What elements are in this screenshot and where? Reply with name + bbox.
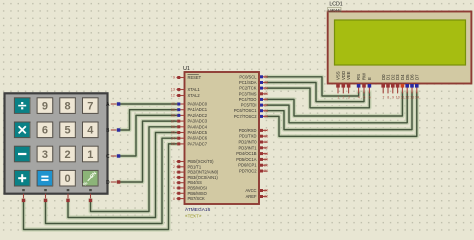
U1 pin label PC5/TDI: [241, 103, 257, 108]
pin U1 pin 4 PB3/(OC0/AIN1): [177, 176, 185, 178]
wire row A to PA0: [119, 102, 177, 106]
svg-text:9: 9: [42, 100, 48, 112]
pin U1 pin 40 PA0/ADC0: [177, 103, 185, 105]
svg-text:12: 12: [171, 94, 175, 98]
wire PC2 to LCD E: [267, 88, 369, 108]
keypad button mul: [14, 122, 30, 138]
wire row B to PA1: [119, 110, 177, 130]
junction U1 pin 4 terminal: [177, 176, 180, 179]
svg-text:40: 40: [171, 102, 175, 106]
U1 pin number 32: [264, 195, 268, 199]
junction U1 pin 8 terminal: [177, 197, 180, 200]
svg-text:11: 11: [401, 96, 405, 100]
svg-text:15: 15: [264, 134, 268, 138]
pin U1 pin 13 XTAL1: [177, 89, 185, 91]
LCD pin number 7: [382, 96, 384, 100]
junction LCD pin 14 terminal: [415, 84, 419, 88]
U1 pin number 3: [173, 170, 175, 174]
U1 pin number 38: [171, 114, 175, 118]
U1 pin number 34: [171, 136, 175, 140]
U1 pin label PB3/(OC0/AIN1): [188, 175, 219, 180]
svg-text:28: 28: [264, 109, 268, 113]
keypad button 8: [60, 98, 76, 114]
LCD pin number 6: [369, 96, 371, 100]
junction U1 pin 38 terminal: [177, 114, 180, 117]
pin U1 pin 16 PD2/INT0: [259, 141, 267, 143]
junction U1 pin 39 terminal: [177, 108, 180, 111]
keypad button plus: [14, 170, 30, 186]
LCD pin label E: [367, 77, 372, 80]
svg-text:D7: D7: [414, 74, 419, 80]
wire col 4 to PA4: [91, 127, 177, 212]
pin LCD pin 8 D1: [387, 84, 389, 94]
svg-text:39: 39: [171, 108, 175, 112]
keypad button 9: [37, 98, 53, 114]
LCD pin number 14: [415, 96, 419, 100]
wire row C to PA2: [119, 115, 177, 156]
LCD1 value label LM044L: [328, 7, 342, 12]
U1 pin label PD0/RXD: [239, 128, 257, 133]
svg-text:PD6/ICP1: PD6/ICP1: [238, 163, 257, 168]
U1 pin number 17: [264, 146, 268, 150]
U1 pin label PC4/TDO: [239, 97, 257, 102]
U1 pin number 25: [264, 92, 268, 96]
pin LCD pin 14 D7: [416, 84, 418, 94]
overline for RESET pin label: [188, 73, 199, 75]
svg-text:PB2/(INT2/AIN0): PB2/(INT2/AIN0): [188, 170, 219, 175]
U1 pin label PA7/ADC7: [188, 141, 208, 146]
LCD pin number 10: [396, 96, 400, 100]
U1 pin number 13: [171, 88, 175, 92]
svg-text:38: 38: [171, 114, 175, 118]
svg-text:PA2/ADC2: PA2/ADC2: [188, 113, 208, 118]
U1 pin number 40: [171, 102, 175, 106]
junction U1 pin 36 terminal: [177, 125, 180, 128]
junction U1 pin 18 terminal: [260, 152, 263, 155]
junction keypad col 4 terminal: [89, 199, 92, 202]
svg-text:E: E: [367, 77, 372, 80]
junction keypad row B terminal: [117, 128, 120, 131]
junction U1 pin 30 terminal: [260, 189, 263, 192]
LCD pin number 12: [405, 96, 409, 100]
svg-text:30: 30: [264, 189, 268, 193]
wire PC6 to LCD D6: [267, 93, 412, 130]
keypad button div: [14, 98, 30, 114]
svg-text:13: 13: [410, 96, 414, 100]
svg-text:35: 35: [171, 131, 175, 135]
LCD LCD1 body: [328, 12, 472, 84]
junction LCD pin 11 terminal: [401, 84, 405, 88]
LCD pin label D4: [400, 74, 405, 80]
svg-text:17: 17: [264, 146, 268, 150]
svg-text:1: 1: [173, 160, 175, 164]
svg-text:PD4/OC1B: PD4/OC1B: [236, 151, 257, 156]
svg-text:PB3/(OC0/AIN1): PB3/(OC0/AIN1): [188, 175, 219, 180]
pin keypad col 2: [45, 194, 47, 200]
LCD pin label VDD: [341, 71, 346, 80]
LCD pin label D2: [390, 74, 395, 80]
svg-text:20: 20: [264, 163, 268, 167]
junction U1 pin 7 terminal: [177, 192, 180, 195]
pin LCD pin 13 D6: [411, 84, 413, 94]
pin U1 pin 20 PD6/ICP1: [259, 164, 267, 166]
junction U1 pin 1 terminal: [177, 160, 180, 163]
U1 TEXT property: [185, 214, 202, 219]
U1 pin label PD3/INT1: [239, 145, 258, 150]
U1 pin number 7: [173, 192, 175, 196]
junction U1 pin 14 terminal: [260, 129, 263, 132]
pin U1 pin 3 PB2/(INT2/AIN0): [177, 171, 185, 173]
svg-text:3: 3: [173, 170, 175, 174]
svg-text:PA0/ADC0: PA0/ADC0: [188, 102, 208, 107]
wire PC4 to LCD D4: [267, 93, 402, 117]
LCD pin label RW: [362, 72, 367, 80]
svg-text:4: 4: [358, 96, 360, 100]
U1 pin label XTAL1: [188, 87, 201, 92]
junction U1 pin 5 terminal: [177, 181, 180, 184]
U1 reference label: [183, 66, 190, 72]
svg-text:PD0/RXD: PD0/RXD: [239, 128, 257, 133]
svg-text:PB4/SS: PB4/SS: [188, 180, 203, 185]
keypad button 7: [83, 98, 99, 114]
pin keypad col 1: [23, 194, 25, 200]
pin keypad col 3: [67, 194, 69, 200]
U1 pin number 5: [173, 181, 175, 185]
svg-text:37: 37: [171, 119, 175, 123]
junction LCD pin 8 terminal: [386, 84, 390, 88]
svg-text:34: 34: [171, 136, 175, 140]
junction U1 pin 12 terminal: [177, 94, 180, 97]
U1 pin label PD5/OC1A: [236, 157, 257, 162]
keypad button 3: [37, 146, 53, 162]
keypad button eq: [37, 170, 53, 186]
junction LCD pin 4 terminal: [357, 84, 361, 88]
junction LCD pin 2 terminal: [342, 84, 346, 88]
svg-text:3: 3: [348, 96, 350, 100]
svg-text:1: 1: [87, 149, 93, 161]
microcontroller U1 ATMEGA16 body: [185, 72, 260, 204]
U1 pin label PA0/ADC0: [188, 102, 208, 107]
junction U1 pin 15 terminal: [260, 135, 263, 138]
LCD pin label D5: [405, 74, 410, 80]
pin LCD pin 1 VSS: [337, 84, 339, 94]
LCD pin label VEE: [346, 71, 351, 80]
U1 pin number 4: [173, 176, 175, 180]
U1 pin number 37: [171, 119, 175, 123]
svg-text:12: 12: [405, 96, 409, 100]
pin keypad row B: [111, 129, 118, 131]
U1 pin label XTAL2: [188, 93, 201, 98]
svg-text:29: 29: [264, 115, 268, 119]
svg-text:27: 27: [264, 103, 268, 107]
svg-text:PA3/ADC3: PA3/ADC3: [188, 119, 208, 124]
svg-text:XTAL2: XTAL2: [188, 93, 201, 98]
U1 pin label PD7/OC2: [239, 169, 257, 174]
pin U1 pin 5 PB4/SS: [177, 182, 185, 184]
svg-text:PA7/ADC7: PA7/ADC7: [188, 141, 208, 146]
LCD pin number 3: [348, 96, 350, 100]
pin LCD pin 10 D3: [397, 84, 399, 94]
svg-text:PA5/ADC5: PA5/ADC5: [188, 130, 208, 135]
pin keypad row A: [111, 103, 118, 105]
svg-text:8: 8: [387, 96, 389, 100]
junction U1 pin 6 terminal: [177, 187, 180, 190]
pin U1 pin 19 PD5/OC1A: [259, 158, 267, 160]
junction U1 pin 17 terminal: [260, 146, 263, 149]
U1 pin number 33: [171, 142, 175, 146]
U1 pin number 6: [173, 186, 175, 190]
U1 pin label PC2/TCK: [239, 86, 257, 91]
svg-text:25: 25: [264, 92, 268, 96]
keypad button 2: [60, 146, 76, 162]
junction U1 pin 2 terminal: [177, 165, 180, 168]
U1 pin number 27: [264, 103, 268, 107]
junction U1 pin 37 terminal: [177, 120, 180, 123]
pin LCD pin 12 D5: [406, 84, 408, 94]
svg-text:22: 22: [264, 75, 268, 79]
svg-text:4: 4: [87, 125, 94, 137]
svg-text:PC0/SCL: PC0/SCL: [239, 74, 257, 79]
svg-text:13: 13: [171, 88, 175, 92]
pin U1 pin 17 PD3/INT1: [259, 147, 267, 149]
U1 pin label PB2/(INT2/AIN0): [188, 170, 219, 175]
keypad row labels A B C D: [106, 102, 110, 186]
junction keypad row A terminal: [117, 102, 120, 105]
pin U1 pin 2 PB1/T1: [177, 166, 185, 168]
LCD pin number 4: [358, 96, 360, 100]
svg-text:PC6/TOSC1: PC6/TOSC1: [234, 108, 257, 113]
svg-text:PC1/SDA: PC1/SDA: [239, 80, 257, 85]
svg-text:RW: RW: [362, 72, 367, 80]
pin keypad row D: [111, 181, 118, 183]
svg-text:VSS: VSS: [336, 71, 341, 80]
U1 pin label AVCC: [245, 188, 256, 193]
svg-text:XTAL1: XTAL1: [188, 87, 201, 92]
LCD pin number 8: [387, 96, 389, 100]
keypad button on: [82, 170, 98, 187]
junction keypad col 3 terminal: [66, 199, 69, 202]
U1 pin number 29: [264, 115, 268, 119]
U1 pin number 18: [264, 152, 268, 156]
U1 pin label PA5/ADC5: [188, 130, 208, 135]
svg-text:PD5/OC1A: PD5/OC1A: [236, 157, 257, 162]
wire col 1 to PA7: [24, 144, 177, 230]
pin U1 pin 12 XTAL2: [177, 95, 185, 97]
svg-text:2: 2: [173, 165, 175, 169]
pin U1 pin 37 PA3/ADC3: [177, 120, 185, 122]
pin U1 pin 27 PC5/TDI: [259, 104, 267, 106]
svg-text:PD2/INT0: PD2/INT0: [239, 140, 258, 145]
junction LCD pin 9 terminal: [391, 84, 395, 88]
svg-text:RESET: RESET: [188, 75, 202, 80]
svg-text:C: C: [106, 154, 110, 160]
pin U1 pin 18 PD4/OC1B: [259, 153, 267, 155]
pin U1 pin 7 PB6/MISO: [177, 192, 185, 194]
svg-text:9: 9: [392, 96, 394, 100]
junction LCD pin 12 terminal: [405, 84, 409, 88]
keypad column index marks: [22, 189, 92, 191]
pin U1 pin 30 AVCC: [259, 190, 267, 192]
svg-text:19: 19: [264, 158, 268, 162]
svg-text:PC3/TMS: PC3/TMS: [239, 91, 257, 96]
svg-text:RS: RS: [356, 74, 361, 80]
svg-text:14: 14: [415, 96, 419, 100]
svg-text:PD3/INT1: PD3/INT1: [239, 145, 258, 150]
svg-text:<TEXT>: <TEXT>: [185, 214, 202, 219]
svg-text:PA4/ADC4: PA4/ADC4: [188, 124, 208, 129]
junction LCD pin 1 terminal: [336, 84, 340, 88]
svg-text:7: 7: [173, 192, 175, 196]
LCD screen: [335, 20, 466, 65]
pin U1 pin 25 PC3/TMS: [259, 93, 267, 95]
junction U1 pin 22 terminal: [260, 75, 263, 78]
LCD pin label VSS: [336, 71, 341, 80]
pin U1 pin 1 PB0/(XCK/T0): [177, 161, 185, 163]
svg-text:PB5/MOSI: PB5/MOSI: [188, 186, 207, 191]
U1 pin label PD1/TXD: [239, 134, 256, 139]
svg-text:PC5/TDI: PC5/TDI: [241, 103, 257, 108]
junction U1 pin 3 terminal: [177, 171, 180, 174]
pin U1 pin 33 PA7/ADC7: [177, 143, 185, 145]
pin keypad col 4: [90, 194, 92, 200]
keypad button minus: [14, 146, 30, 162]
U1 pin number 9: [173, 76, 175, 80]
U1 pin number 12: [171, 94, 175, 98]
U1 pin number 30: [264, 189, 268, 193]
U1 pin number 8: [173, 197, 175, 201]
wire PC0 to LCD RS: [267, 77, 359, 96]
junction U1 pin 27 terminal: [260, 104, 263, 107]
svg-text:5: 5: [173, 181, 175, 185]
U1 pin label PD6/ICP1: [238, 163, 257, 168]
svg-text:8: 8: [65, 100, 71, 112]
LCD pin label D7: [414, 74, 419, 80]
LCD pin number 9: [392, 96, 394, 100]
pin U1 pin 22 PC0/SCL: [259, 76, 267, 78]
svg-text:PA6/ADC6: PA6/ADC6: [188, 136, 208, 141]
svg-text:16: 16: [264, 140, 268, 144]
junction U1 pin 23 terminal: [260, 81, 263, 84]
svg-text:6: 6: [369, 96, 371, 100]
svg-text:5: 5: [65, 125, 71, 137]
junction U1 pin 29 terminal: [260, 115, 263, 118]
junction U1 pin 21 terminal: [260, 170, 263, 173]
wire row D to PA3: [119, 121, 177, 182]
U1 pin label PA3/ADC3: [188, 119, 208, 124]
svg-text:0: 0: [65, 173, 71, 185]
U1 pin number 39: [171, 108, 175, 112]
svg-text:AVCC: AVCC: [245, 188, 256, 193]
junction keypad row D terminal: [117, 180, 120, 183]
svg-text:5: 5: [363, 96, 365, 100]
svg-text:PC4/TDO: PC4/TDO: [239, 97, 257, 102]
svg-text:1: 1: [337, 96, 339, 100]
keypad button 4: [83, 122, 99, 138]
svg-text:VDD: VDD: [341, 71, 346, 80]
svg-text:7: 7: [87, 100, 93, 112]
junction LCD pin 13 terminal: [410, 84, 414, 88]
junction U1 pin 24 terminal: [260, 87, 263, 90]
U1 pin label PD2/INT0: [239, 140, 258, 145]
pin U1 pin 32 AREF: [259, 196, 267, 198]
pin U1 pin 39 PA1/ADC1: [177, 109, 185, 111]
U1 pin number 36: [171, 125, 175, 129]
U1 pin label PD4/OC1B: [236, 151, 257, 156]
U1 pin label PA2/ADC2: [188, 113, 208, 118]
junction U1 pin 33 terminal: [177, 142, 180, 145]
keypad button 5: [60, 122, 76, 138]
LCD pin number 5: [363, 96, 365, 100]
LCD pin label RS: [356, 74, 361, 80]
pin keypad row C: [111, 155, 118, 157]
U1 pin number 21: [264, 169, 268, 173]
svg-text:23: 23: [264, 81, 268, 85]
junction U1 pin 25 terminal: [260, 92, 263, 95]
wire col 3 to PA5: [68, 133, 177, 218]
U1 pin label PC6/TOSC1: [234, 108, 257, 113]
LCD pin number 13: [410, 96, 414, 100]
svg-text:32: 32: [264, 195, 268, 199]
U1 pin label PB0/(XCK/T0): [188, 159, 215, 164]
svg-text:PC2/TCK: PC2/TCK: [239, 86, 257, 91]
U1 pin label PC0/SCL: [239, 74, 257, 79]
pin LCD pin 5 RW: [363, 84, 365, 94]
wire col 2 to PA6: [46, 138, 177, 223]
pin U1 pin 6 PB5/MOSI: [177, 187, 185, 189]
LCD pin label D1: [386, 74, 391, 80]
svg-text:3: 3: [42, 149, 48, 161]
U1 pin number 14: [264, 129, 268, 133]
U1 pin label PC7/TOSC2: [234, 114, 257, 119]
U1 pin number 24: [264, 86, 268, 90]
LCD pin number 11: [401, 96, 405, 100]
U1 pin label PB6/MISO: [188, 191, 207, 196]
svg-text:PB1/T1: PB1/T1: [188, 164, 202, 169]
U1 pin number 28: [264, 109, 268, 113]
U1 pin number 15: [264, 134, 268, 138]
pin U1 pin 24 PC2/TCK: [259, 87, 267, 89]
keypad button 1: [83, 146, 99, 162]
svg-text:D: D: [106, 180, 110, 186]
U1 pin label PB1/T1: [188, 164, 202, 169]
junction LCD pin 6 terminal: [368, 84, 372, 88]
wire PC5 to LCD D5: [267, 93, 407, 123]
keypad KP1 body: [4, 92, 109, 194]
pin U1 pin 29 PC7/TOSC2: [259, 115, 267, 117]
U1 pin number 2: [173, 165, 175, 169]
pin LCD pin 6 E: [368, 84, 370, 94]
junction LCD pin 7 terminal: [381, 84, 385, 88]
U1 value label ATMEGA16: [185, 207, 211, 213]
svg-text:PB0/(XCK/T0): PB0/(XCK/T0): [188, 159, 215, 164]
junction LCD pin 5 terminal: [362, 84, 366, 88]
U1 pin number 23: [264, 81, 268, 85]
pin U1 pin 21 PD7/OC2: [259, 170, 267, 172]
U1 pin label PA4/ADC4: [188, 124, 208, 129]
svg-text:2: 2: [65, 149, 71, 161]
pin U1 pin 38 PA2/ADC2: [177, 114, 185, 116]
svg-text:36: 36: [171, 125, 175, 129]
U1 pin label PC3/TMS: [239, 91, 257, 96]
U1 pin label AREF: [246, 194, 257, 199]
svg-text:9: 9: [173, 76, 175, 80]
pin U1 pin 34 PA6/ADC6: [177, 137, 185, 139]
svg-text:LCD1: LCD1: [329, 1, 342, 7]
junction keypad col 1 terminal: [22, 199, 25, 202]
pin U1 pin 28 PC6/TOSC1: [259, 110, 267, 112]
junction U1 pin 26 terminal: [260, 98, 263, 101]
svg-text:33: 33: [171, 142, 175, 146]
